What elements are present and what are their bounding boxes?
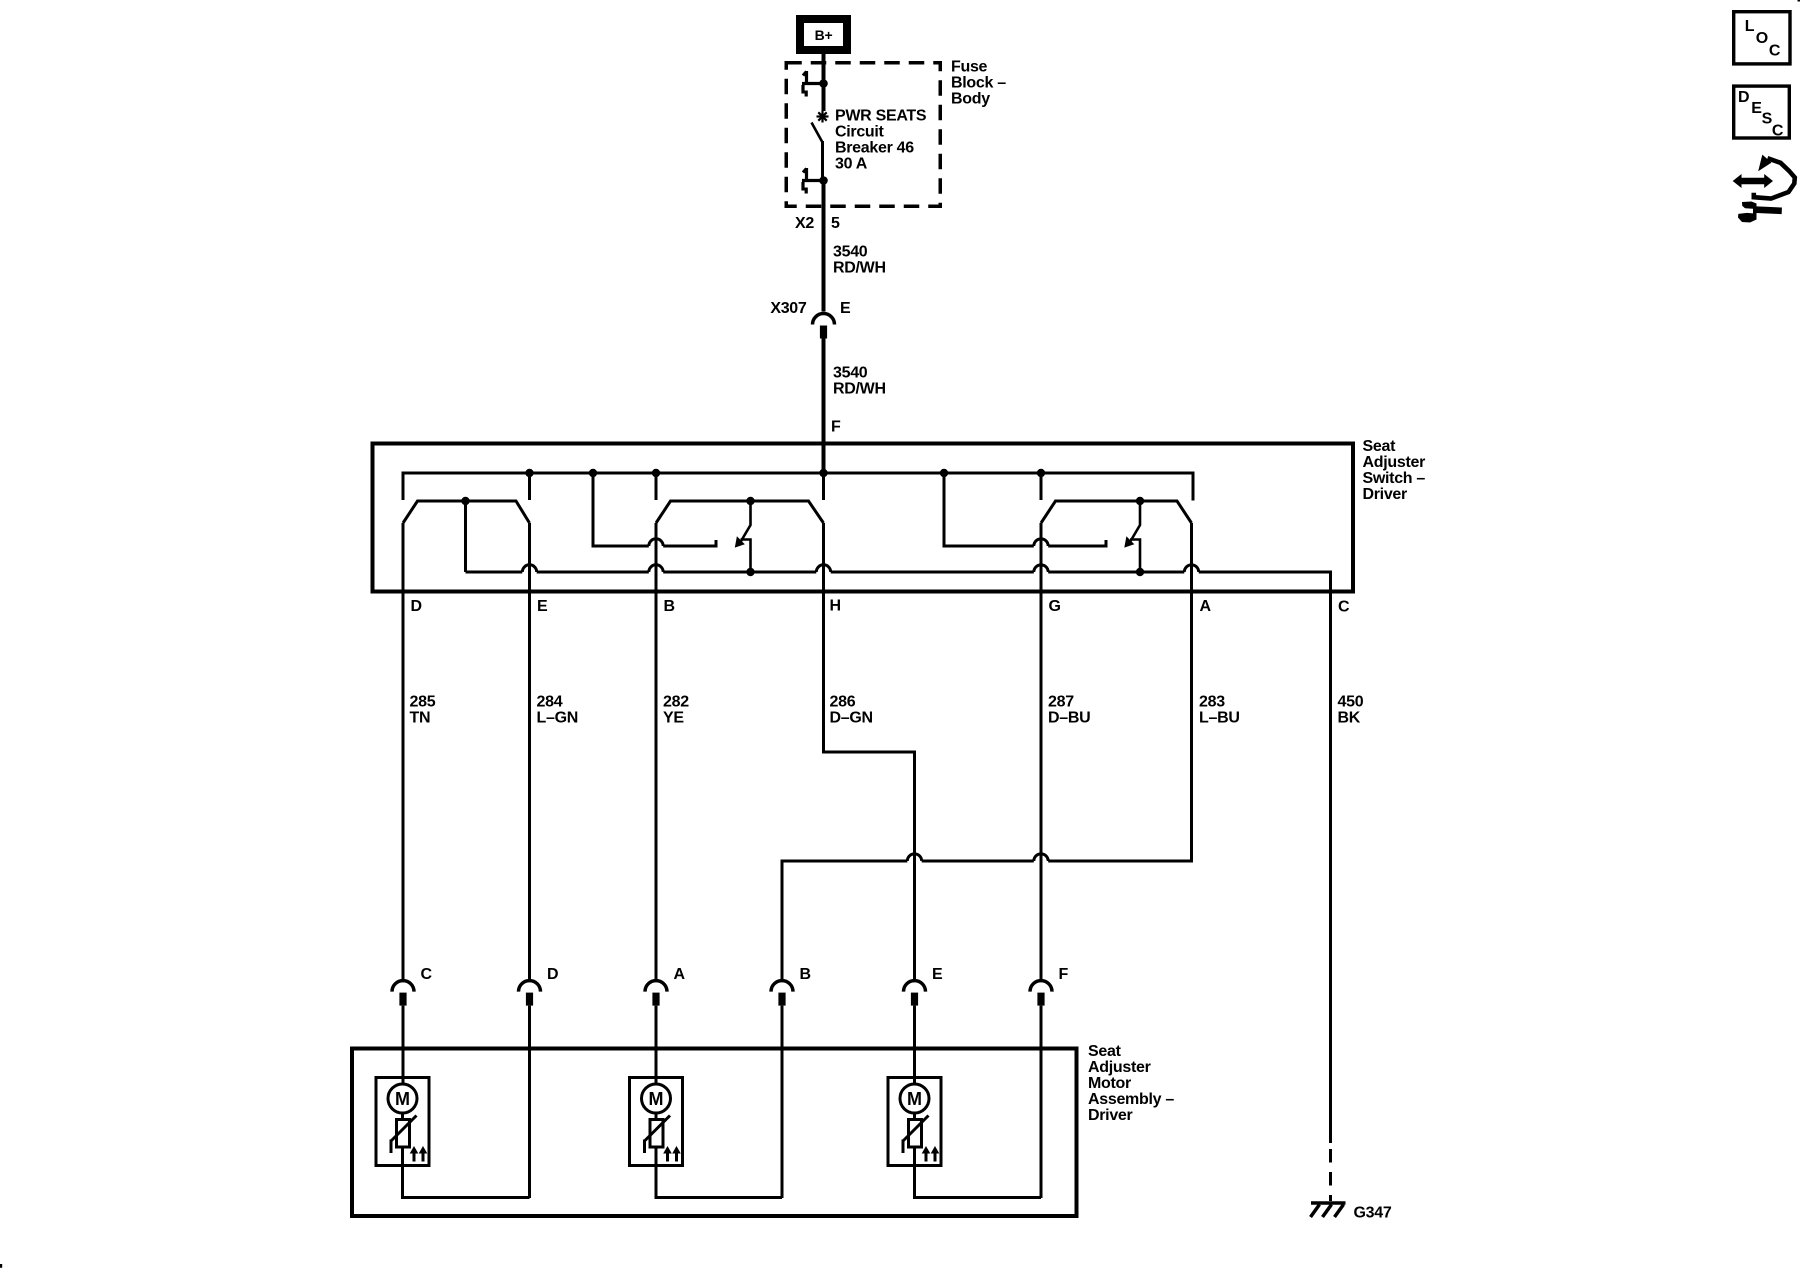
bus junction dot at B [652, 469, 660, 477]
svg-text:D: D [411, 598, 422, 615]
wire breaker to lower clip [821, 141, 824, 181]
motor 3 arrows [922, 1146, 940, 1162]
switch 3 fixed contact from bus [944, 473, 1106, 546]
switch 3 rocker contact [1041, 501, 1192, 523]
svg-text:Driver: Driver [1363, 486, 1408, 503]
connector F [1030, 966, 1069, 1006]
svg-text:Breaker 46: Breaker 46 [835, 140, 914, 157]
svg-text:TN: TN [410, 710, 431, 727]
hop over wire B [649, 565, 663, 572]
svg-text:5: 5 [831, 215, 840, 232]
svg-text:D–BU: D–BU [1048, 710, 1090, 727]
svg-text:285: 285 [410, 694, 436, 711]
bus junction dot at switch 2 feed [589, 469, 597, 477]
motor 2 thermistor [645, 1116, 671, 1154]
svg-text:A: A [1200, 598, 1212, 615]
svg-text:284: 284 [537, 694, 563, 711]
connector B [771, 966, 811, 1006]
wire G to connector F [1040, 523, 1043, 979]
svg-text:PWR SEATS: PWR SEATS [835, 108, 927, 125]
bus junction dot at G [1037, 469, 1045, 477]
motor 3 thermistor [903, 1116, 929, 1154]
svg-text:Adjuster: Adjuster [1088, 1059, 1151, 1076]
svg-text:3540: 3540 [833, 365, 868, 382]
svg-text:D: D [1738, 89, 1749, 106]
hop over wire from H [907, 854, 921, 861]
motor 3 wire M to thermistor [913, 1113, 916, 1120]
svg-text:O: O [1756, 30, 1768, 47]
motor 3 return wire [915, 1146, 1042, 1198]
fuse block - body label [951, 59, 1006, 108]
svg-text:Switch –: Switch – [1363, 470, 1426, 487]
wire connector E to motor 3 [913, 1006, 916, 1084]
wire connector B to motor 2 return [781, 1006, 784, 1198]
motor 1 arrows [410, 1146, 428, 1162]
svg-text:Adjuster: Adjuster [1363, 454, 1426, 471]
switch 1 rocker contact [403, 501, 530, 523]
svg-text:Fuse: Fuse [951, 59, 988, 76]
bus stub contact B [655, 473, 658, 500]
hop over wire G [1034, 539, 1048, 546]
PWR SEATS circuit breaker label [835, 108, 927, 173]
wire A to connector B [782, 523, 1192, 979]
page mark top right [1798, 0, 1800, 2]
bus junction dot at E [525, 469, 533, 477]
motor 1 unit box [376, 1078, 429, 1166]
svg-text:A: A [674, 966, 686, 983]
svg-text:B+: B+ [815, 27, 833, 43]
svg-text:M: M [395, 1089, 410, 1109]
svg-text:F: F [1059, 966, 1069, 983]
junction at upper clip [819, 79, 828, 88]
wire clip to breaker contact [822, 84, 826, 112]
svg-text:B: B [800, 966, 811, 983]
switch 1 wiper to common [464, 501, 467, 572]
page corner mark bottom left [0, 1264, 2, 1268]
switch 2 rocker contact [656, 501, 824, 523]
svg-text:G: G [1049, 598, 1061, 615]
wire B to connector A [655, 523, 658, 979]
svg-text:C: C [1772, 123, 1784, 140]
switch 3 wiper junction top [1136, 497, 1144, 505]
connector A [645, 966, 686, 1006]
svg-text:E: E [840, 300, 851, 317]
svg-text:Seat: Seat [1363, 438, 1397, 455]
wire label 284 L-GN [537, 694, 578, 727]
motor 2 arrows [663, 1146, 681, 1162]
svg-text:286: 286 [830, 694, 856, 711]
hop over wire H [816, 565, 830, 572]
svg-text:3540: 3540 [833, 244, 868, 261]
motor 2 unit box [630, 1078, 683, 1166]
svg-text:Circuit: Circuit [835, 124, 885, 141]
wire X307 to switch box pin F [822, 339, 826, 475]
connector C [392, 966, 433, 1006]
svg-text:Motor: Motor [1088, 1075, 1131, 1092]
svg-text:30 A: 30 A [835, 156, 868, 173]
DESC legend box [1734, 86, 1790, 140]
svg-text:C: C [1338, 599, 1350, 616]
wire connector D to motor 1 return [528, 1006, 531, 1198]
switch feed bus [403, 473, 1193, 501]
wire label 3540 RD/WH upper [833, 244, 886, 277]
connector D [519, 966, 559, 1006]
switch 2 wiper junction top [746, 497, 754, 505]
wire label 283 L-BU [1199, 694, 1240, 727]
connector E [904, 966, 944, 1006]
pin X2 5 labels [795, 215, 840, 232]
bus junction dot at F feed [819, 469, 827, 477]
svg-text:YE: YE [663, 710, 684, 727]
svg-text:X2: X2 [795, 215, 814, 232]
svg-text:Seat: Seat [1088, 1043, 1122, 1060]
wire label 450 BK [1338, 694, 1364, 727]
battery B+ terminal [800, 19, 847, 50]
svg-text:B: B [664, 598, 675, 615]
common line to pin C [466, 572, 1331, 1143]
wire label 3540 RD/WH lower [833, 365, 886, 398]
svg-text:D: D [547, 966, 558, 983]
svg-text:X307: X307 [770, 300, 807, 317]
svg-text:RD/WH: RD/WH [833, 260, 886, 277]
motor 2 return wire [656, 1146, 782, 1198]
circuit breaker 46 upper clip [802, 71, 824, 97]
hop over wire G [1034, 565, 1048, 572]
motor 1 return wire [403, 1146, 530, 1198]
svg-text:M: M [649, 1089, 664, 1109]
hop over wire G [1034, 854, 1048, 861]
switch 2 wiper junction bottom [746, 568, 754, 576]
svg-text:RD/WH: RD/WH [833, 381, 886, 398]
wire connector C to motor 1 [402, 1006, 405, 1084]
switch 2 fixed contact from bus [593, 473, 716, 546]
wrench icon [1738, 202, 1782, 223]
wire E to connector D [528, 523, 531, 979]
ground G347 [1311, 1203, 1346, 1217]
seat adjuster motor assembly label [1088, 1043, 1174, 1124]
svg-text:L–GN: L–GN [537, 710, 578, 727]
hop over wire B [649, 539, 663, 546]
svg-text:Body: Body [951, 91, 990, 108]
svg-text:H: H [830, 598, 841, 615]
svg-text:D–GN: D–GN [830, 710, 873, 727]
motor 2 wire M to thermistor [655, 1113, 658, 1120]
switch 2 blade [735, 501, 751, 572]
navigation arrows icon [1733, 155, 1795, 199]
wire B+ to fuse block [822, 54, 826, 81]
circuit breaker blade [812, 123, 823, 142]
svg-text:283: 283 [1199, 694, 1225, 711]
motor 2 M [642, 1084, 671, 1113]
svg-text:Assembly –: Assembly – [1088, 1091, 1174, 1108]
wire fuse block to connector X307 [822, 181, 826, 312]
svg-text:287: 287 [1048, 694, 1074, 711]
wire label 286 D-GN [830, 694, 873, 727]
wire label 285 TN [410, 694, 436, 727]
wire D to connector C [402, 523, 405, 979]
motor 3 M [900, 1084, 929, 1113]
svg-text:L: L [1745, 18, 1755, 35]
circuit breaker 46 lower clip [802, 168, 824, 194]
svg-text:G347: G347 [1354, 1205, 1392, 1222]
switch 3 blade [1124, 501, 1140, 572]
svg-text:E: E [932, 966, 943, 983]
bus stub contact G [1040, 473, 1043, 500]
svg-text:F: F [831, 419, 841, 436]
bus stub contact E [528, 473, 531, 500]
wire connector F to motor 3 return [1040, 1006, 1043, 1198]
wire 450 BK dashed to ground [1329, 1149, 1332, 1201]
connector X307 pin E [770, 300, 851, 339]
seat adjuster switch box [373, 444, 1354, 592]
motor 1 M [388, 1084, 417, 1113]
motor 1 thermistor [391, 1116, 417, 1154]
hop over wire E [522, 565, 536, 572]
LOC legend box [1734, 12, 1790, 64]
seat adjuster motor assembly box [352, 1049, 1077, 1217]
svg-text:M: M [907, 1089, 922, 1109]
svg-text:L–BU: L–BU [1199, 710, 1240, 727]
hop over wire A [1184, 565, 1198, 572]
svg-text:Block –: Block – [951, 75, 1006, 92]
svg-text:C: C [1769, 42, 1781, 59]
bus junction dot at switch 3 feed [940, 469, 948, 477]
fuse block - body dashed box [786, 63, 940, 207]
circuit breaker contact asterisk [817, 111, 829, 123]
switch 1 wiper junction [461, 497, 469, 505]
bus stub contact H [822, 473, 825, 500]
svg-text:E: E [537, 598, 548, 615]
wire label 282 YE [663, 694, 689, 727]
switch 3 wiper junction bottom [1136, 568, 1144, 576]
wire connector A to motor 2 [655, 1006, 658, 1084]
svg-text:282: 282 [663, 694, 689, 711]
wire H to connector E [824, 523, 915, 979]
junction at lower clip [819, 176, 828, 185]
seat adjuster switch label [1363, 438, 1426, 503]
svg-text:BK: BK [1338, 710, 1361, 727]
svg-text:450: 450 [1338, 694, 1364, 711]
motor 1 wire M to thermistor [401, 1113, 404, 1120]
svg-text:Driver: Driver [1088, 1107, 1133, 1124]
motor 3 unit box [888, 1078, 941, 1166]
svg-text:C: C [421, 966, 433, 983]
wire label 287 D-BU [1048, 694, 1090, 727]
